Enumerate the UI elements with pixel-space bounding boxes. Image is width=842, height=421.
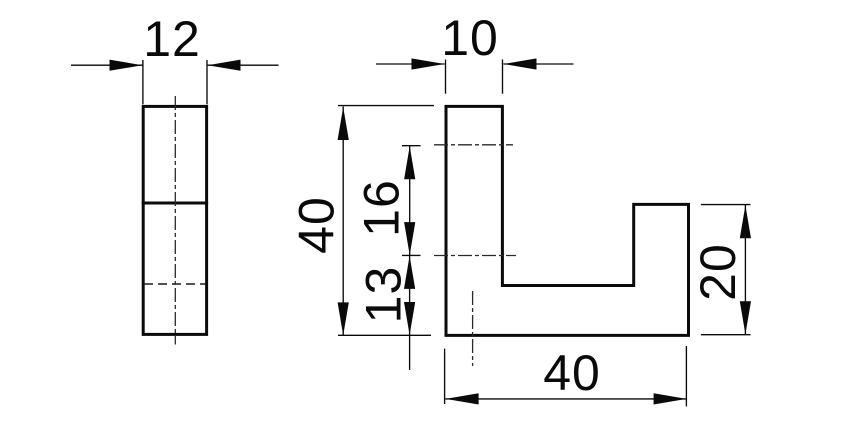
center line horizontal lower [434,255,516,257]
center line vertical [472,291,474,366]
svg-text:12: 12 [143,11,201,67]
svg-text:10: 10 [441,10,499,66]
dimension 10 left arrowhead [412,58,445,69]
dimension 40 bottom right arrowhead [654,393,687,404]
part outline [446,106,689,335]
svg-text:40: 40 [289,196,345,254]
dimension 20 bottom arrowhead [740,301,751,334]
dimension 40 left bottom arrowhead [338,302,349,335]
dimension 20 extension and dimension lines [701,205,751,335]
dimension 16 tick and dimension lines [402,146,421,256]
dimension 12 left arrowhead [110,60,143,71]
svg-text:13: 13 [356,266,412,324]
svg-text:20: 20 [690,243,746,301]
dimension 16 top arrowhead [404,146,415,179]
dimension 40 left extension and dimension lines [338,106,434,336]
dimension 13 top arrowhead [404,256,415,289]
dimension 40 left top arrowhead [338,107,349,140]
dimension 10 extension and dimension lines [376,60,574,94]
dimension 20 top arrowhead [740,205,751,238]
left view hidden dashed line [144,283,206,285]
svg-text:40: 40 [543,345,601,401]
dimension 12 right arrowhead [208,60,241,71]
left view vertical center line [174,96,176,345]
dimension 40 bottom extension and dimension lines [445,346,687,406]
dimension 13 dimension line with overshoot [409,256,411,370]
left view outline [142,106,208,334]
center line horizontal upper [434,144,513,146]
svg-text:16: 16 [354,179,410,237]
dimension 12 extension and dimension lines [71,60,279,104]
dimension 10 right arrowhead [504,58,537,69]
dimension 16 bottom arrowhead [404,222,415,255]
dimension 13 bottom arrowhead [404,302,415,335]
dimension 40 bottom left arrowhead [446,393,479,404]
